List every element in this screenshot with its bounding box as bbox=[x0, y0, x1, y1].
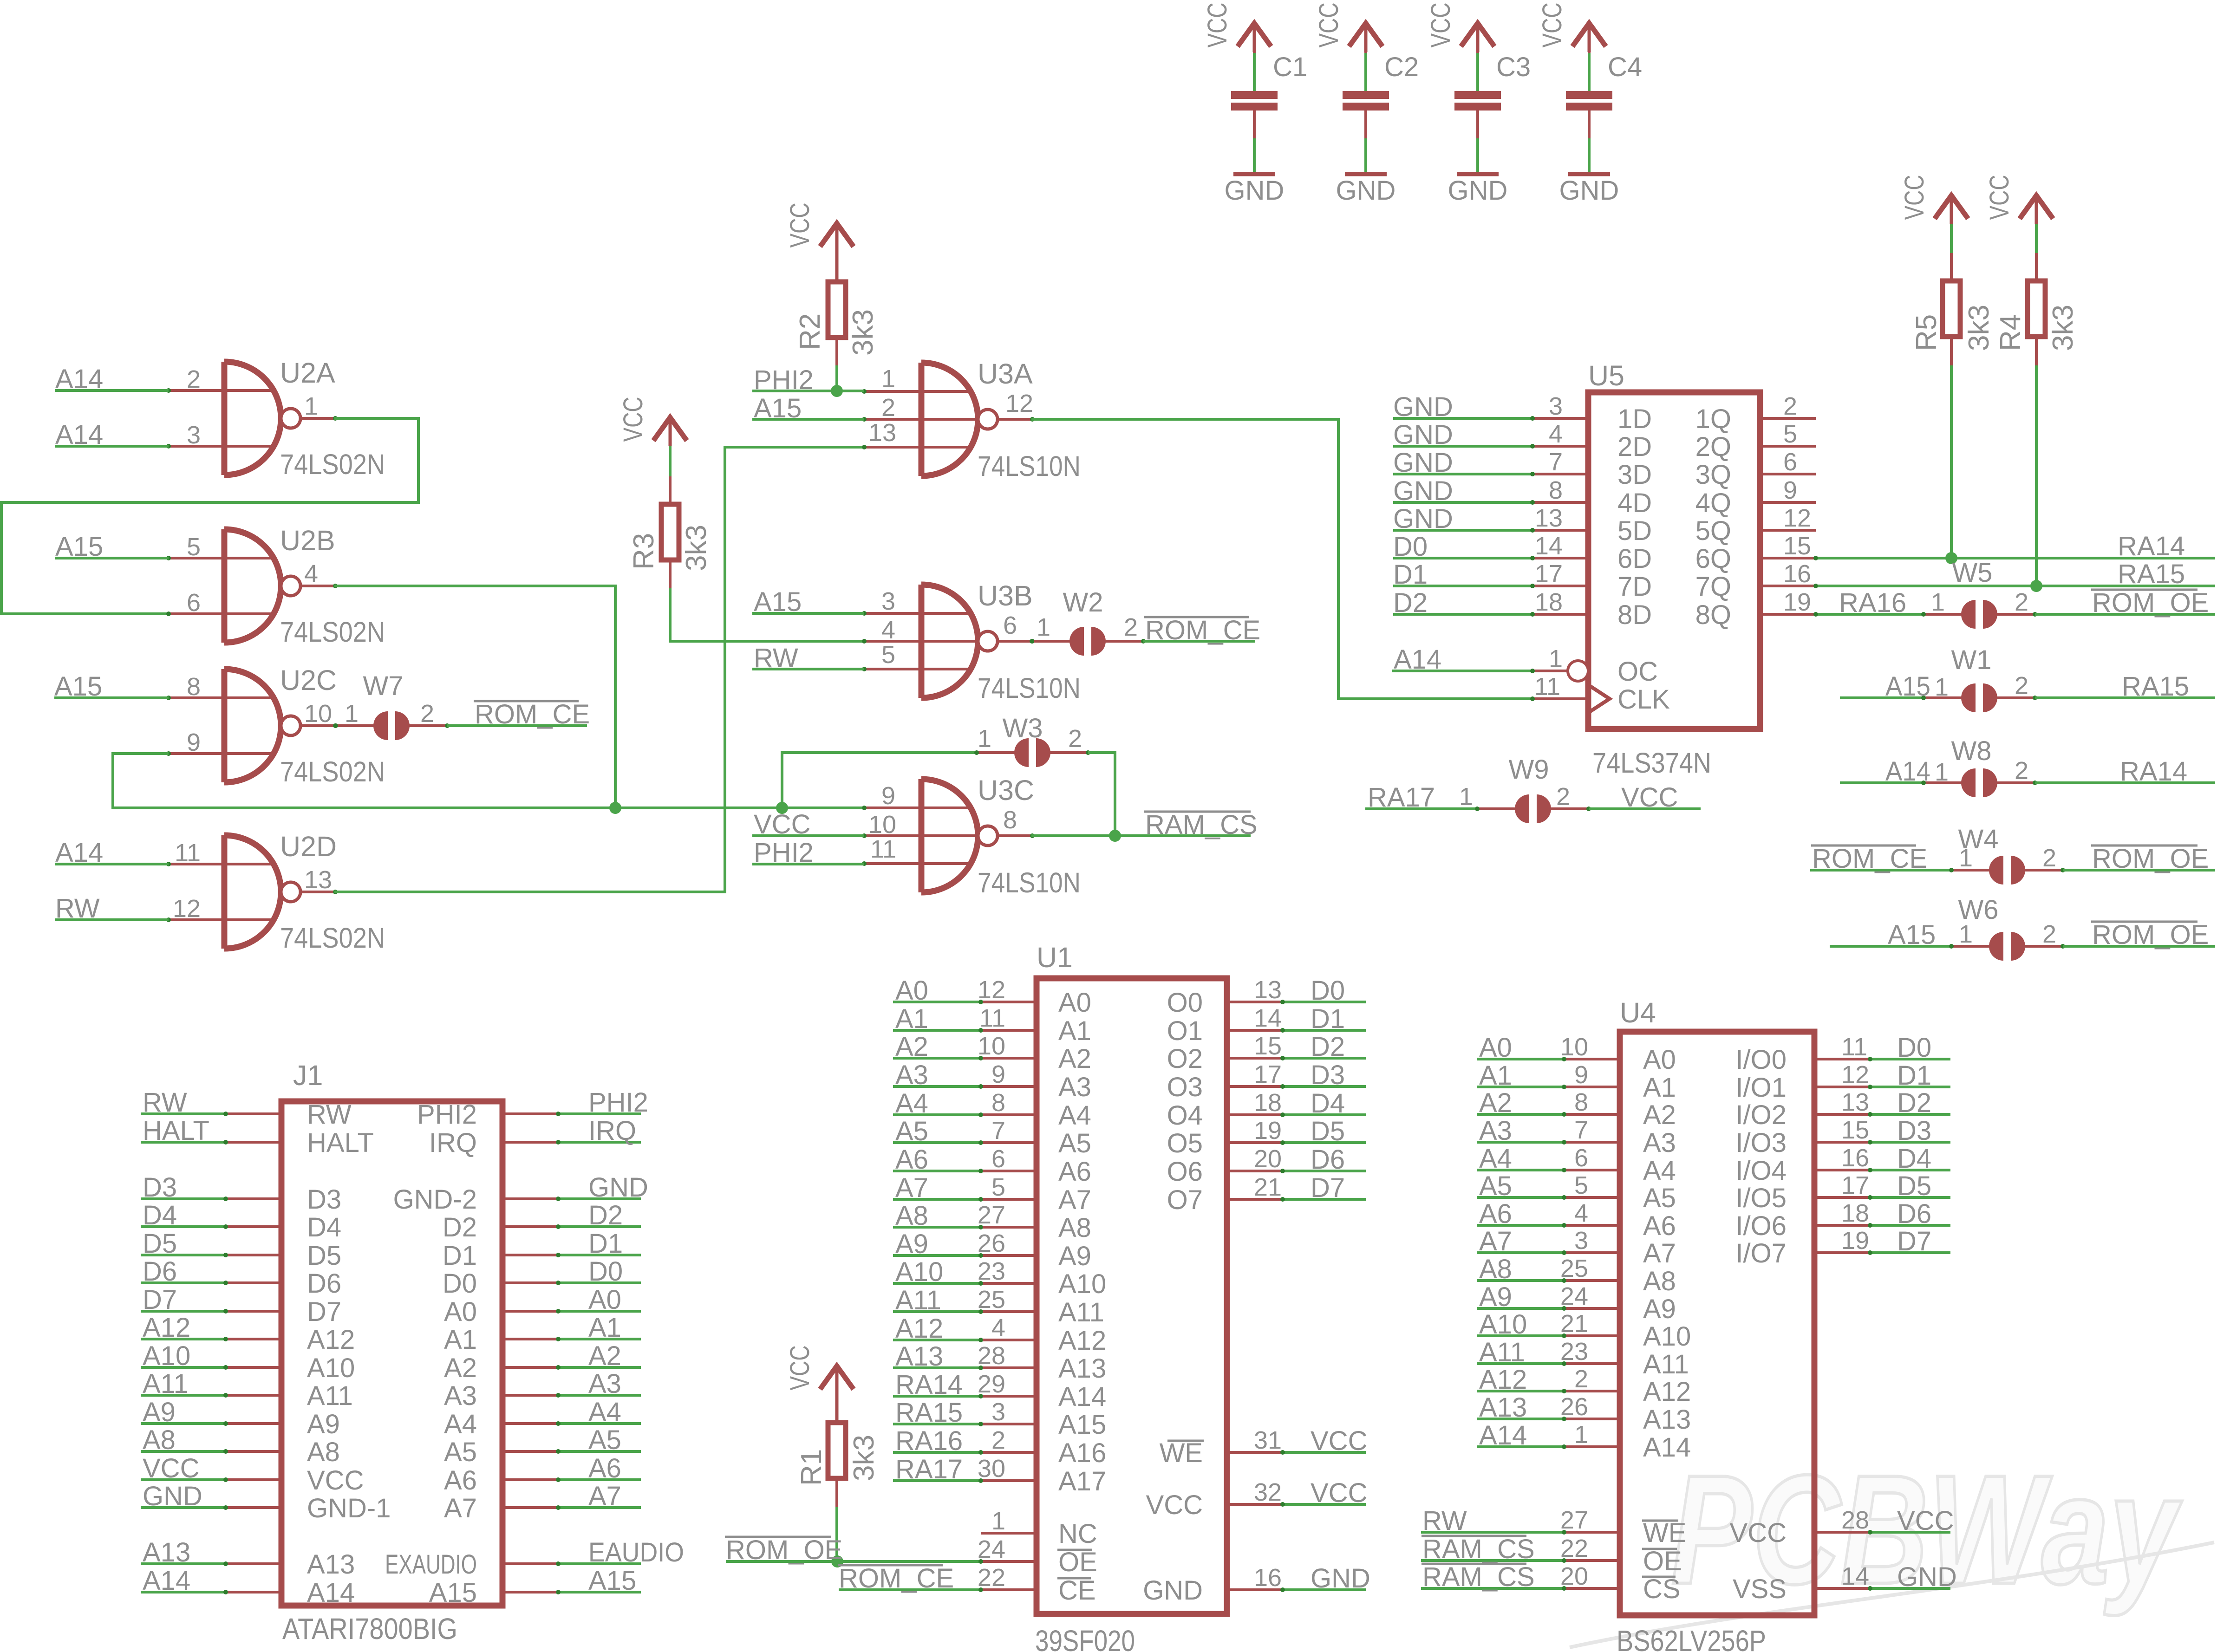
VCC power symbol above R2 bbox=[820, 223, 854, 247]
svg-text:8: 8 bbox=[991, 1089, 1005, 1117]
U1 pin 27 (A8) net A8 bbox=[893, 1226, 981, 1229]
svg-text:2: 2 bbox=[1124, 613, 1138, 641]
U1 pin 28 (A13) net A13 bbox=[893, 1366, 981, 1369]
svg-text:3: 3 bbox=[1574, 1227, 1588, 1255]
svg-text:2: 2 bbox=[420, 700, 434, 728]
U1 pin 8 (A4) net A4 bbox=[893, 1113, 981, 1116]
J1 right pin A4 net A4 bbox=[502, 1422, 558, 1425]
svg-text:D3: D3 bbox=[1897, 1116, 1931, 1146]
svg-text:17: 17 bbox=[1841, 1171, 1869, 1199]
svg-text:3: 3 bbox=[881, 587, 895, 615]
J1 left pin A14 net A14 bbox=[141, 1591, 226, 1593]
U1 pin 17 (O3) net D3 bbox=[1227, 1085, 1283, 1088]
svg-text:A4: A4 bbox=[1643, 1156, 1676, 1186]
svg-text:A6: A6 bbox=[588, 1453, 621, 1483]
svg-text:2: 2 bbox=[881, 394, 895, 422]
svg-text:A11: A11 bbox=[307, 1381, 353, 1411]
svg-text:19: 19 bbox=[1841, 1227, 1869, 1255]
svg-text:VCC: VCC bbox=[1984, 175, 2015, 220]
svg-text:GND: GND bbox=[1393, 392, 1453, 422]
svg-text:24: 24 bbox=[978, 1535, 1005, 1563]
svg-text:GND: GND bbox=[588, 1172, 648, 1203]
svg-text:GND: GND bbox=[1393, 504, 1453, 534]
svg-text:A10: A10 bbox=[143, 1341, 190, 1371]
svg-text:VCC: VCC bbox=[1314, 3, 1344, 48]
svg-text:74LS02N: 74LS02N bbox=[280, 616, 385, 648]
svg-text:1: 1 bbox=[1037, 613, 1050, 641]
svg-text:OE: OE bbox=[1643, 1546, 1682, 1576]
U1 pin 13 (O0) net D0 bbox=[1227, 1001, 1283, 1003]
svg-text:12: 12 bbox=[1783, 504, 1811, 532]
junction dot W3 net bbox=[776, 802, 788, 814]
svg-text:D0: D0 bbox=[443, 1268, 477, 1299]
svg-text:74LS02N: 74LS02N bbox=[280, 756, 385, 787]
svg-text:A13: A13 bbox=[1643, 1405, 1691, 1435]
svg-text:CLK: CLK bbox=[1617, 684, 1670, 715]
svg-text:2: 2 bbox=[1556, 783, 1570, 811]
J1 right pin GND-2 net GND bbox=[502, 1197, 558, 1200]
svg-text:I/O0: I/O0 bbox=[1735, 1045, 1787, 1075]
svg-text:1: 1 bbox=[1959, 844, 1973, 872]
svg-text:28: 28 bbox=[978, 1342, 1005, 1370]
svg-text:5D: 5D bbox=[1617, 516, 1652, 546]
svg-text:VCC: VCC bbox=[307, 1465, 364, 1496]
svg-text:3k3: 3k3 bbox=[847, 309, 879, 356]
svg-text:1: 1 bbox=[1935, 758, 1949, 786]
jumper W1 with pin numbers 1 2 bbox=[1924, 696, 1962, 699]
svg-text:W1: W1 bbox=[1951, 645, 1992, 675]
svg-text:GND: GND bbox=[1559, 176, 1619, 206]
svg-text:3: 3 bbox=[187, 421, 201, 449]
svg-text:D7: D7 bbox=[1897, 1226, 1931, 1256]
svg-text:A5: A5 bbox=[1643, 1183, 1676, 1213]
svg-text:5: 5 bbox=[1574, 1171, 1588, 1199]
U1 pin 11 (A1) net A1 bbox=[893, 1029, 981, 1032]
svg-text:A0: A0 bbox=[1643, 1045, 1676, 1075]
svg-text:D5: D5 bbox=[143, 1229, 177, 1259]
U4 pin 3 (A7) bbox=[1477, 1251, 1564, 1254]
svg-text:1D: 1D bbox=[1617, 404, 1652, 434]
U5 pin 6 (3Q) bbox=[1760, 473, 1816, 475]
svg-text:5: 5 bbox=[991, 1173, 1005, 1201]
svg-text:14: 14 bbox=[1535, 532, 1563, 560]
svg-text:W8: W8 bbox=[1951, 736, 1992, 766]
svg-text:A8: A8 bbox=[1643, 1266, 1676, 1296]
svg-text:D6: D6 bbox=[1311, 1145, 1345, 1175]
svg-text:16: 16 bbox=[1783, 560, 1811, 588]
U5 CLK pin bbox=[1532, 697, 1588, 700]
U4 pin 13 (I/O2) net D2 bbox=[1814, 1113, 1870, 1116]
svg-text:12: 12 bbox=[1005, 390, 1033, 417]
capacitor C3 bbox=[1476, 53, 1479, 91]
svg-text:D6: D6 bbox=[307, 1268, 341, 1299]
svg-text:W5: W5 bbox=[1952, 558, 1993, 588]
U5 pin 12 (5Q) bbox=[1760, 529, 1816, 532]
svg-text:A8: A8 bbox=[143, 1425, 176, 1455]
svg-text:GND: GND bbox=[1448, 176, 1508, 206]
svg-text:VCC: VCC bbox=[1897, 1506, 1954, 1536]
svg-text:A2: A2 bbox=[895, 1032, 928, 1062]
svg-text:VCC: VCC bbox=[1621, 782, 1678, 813]
svg-text:RA15: RA15 bbox=[895, 1398, 963, 1428]
svg-text:6: 6 bbox=[991, 1145, 1005, 1173]
svg-text:A0: A0 bbox=[444, 1297, 477, 1327]
svg-text:D3: D3 bbox=[307, 1184, 341, 1215]
J1 left pin A9 net A9 bbox=[141, 1422, 226, 1425]
svg-text:W3: W3 bbox=[1003, 713, 1043, 743]
NOR gate U2B (74LS02N) bbox=[222, 529, 228, 643]
svg-text:O4: O4 bbox=[1167, 1100, 1203, 1131]
svg-text:19: 19 bbox=[1783, 588, 1811, 616]
svg-text:15: 15 bbox=[1254, 1032, 1282, 1060]
NAND gate U3C (74LS10N) bbox=[919, 779, 925, 892]
svg-text:24: 24 bbox=[1560, 1282, 1588, 1310]
svg-text:A8: A8 bbox=[895, 1201, 928, 1231]
svg-text:A5: A5 bbox=[1058, 1128, 1091, 1158]
svg-text:A2: A2 bbox=[588, 1341, 621, 1371]
svg-text:O3: O3 bbox=[1167, 1072, 1203, 1102]
svg-text:8: 8 bbox=[1574, 1088, 1588, 1116]
svg-text:VCC: VCC bbox=[1311, 1478, 1367, 1508]
svg-text:VCC: VCC bbox=[1730, 1518, 1787, 1548]
svg-text:D2: D2 bbox=[1897, 1088, 1931, 1118]
svg-text:U1: U1 bbox=[1037, 942, 1073, 973]
U1 pin 14 (O1) net D1 bbox=[1227, 1029, 1283, 1032]
svg-text:A15: A15 bbox=[1058, 1410, 1106, 1440]
svg-text:A13: A13 bbox=[307, 1549, 355, 1580]
svg-text:1: 1 bbox=[1549, 645, 1563, 673]
svg-text:A4: A4 bbox=[1058, 1100, 1091, 1131]
svg-text:12: 12 bbox=[173, 895, 201, 923]
svg-text:17: 17 bbox=[1535, 560, 1563, 588]
svg-text:11: 11 bbox=[979, 1004, 1005, 1032]
svg-text:A0: A0 bbox=[588, 1285, 621, 1315]
svg-text:RA16: RA16 bbox=[895, 1426, 963, 1456]
wire U2D output to U3A pin 13 bbox=[334, 447, 864, 892]
svg-text:A6: A6 bbox=[1643, 1211, 1676, 1241]
svg-text:W9: W9 bbox=[1509, 754, 1549, 785]
svg-text:HALT: HALT bbox=[143, 1116, 209, 1146]
svg-text:A8: A8 bbox=[1058, 1213, 1091, 1243]
svg-text:74LS02N: 74LS02N bbox=[280, 922, 385, 954]
IC U1 39SF020 box bbox=[1037, 978, 1227, 1614]
J1 left pin A11 net A11 bbox=[141, 1394, 226, 1397]
svg-text:D1: D1 bbox=[443, 1241, 477, 1271]
svg-text:7: 7 bbox=[991, 1117, 1005, 1145]
svg-text:GND-2: GND-2 bbox=[393, 1184, 477, 1215]
jumper W9 with pin numbers 1 2 bbox=[1477, 807, 1515, 810]
J1 right pin IRQ net IRQ bbox=[502, 1141, 558, 1144]
svg-text:A5: A5 bbox=[444, 1437, 477, 1467]
U4 pin 22 OE net RAM_CS bbox=[1421, 1559, 1564, 1562]
svg-text:1: 1 bbox=[1459, 783, 1473, 811]
svg-text:15: 15 bbox=[1783, 532, 1811, 560]
svg-text:RA16: RA16 bbox=[1839, 588, 1906, 618]
svg-text:74LS10N: 74LS10N bbox=[978, 672, 1081, 704]
svg-text:U5: U5 bbox=[1588, 360, 1624, 391]
J1 left pin VCC net VCC bbox=[141, 1478, 226, 1481]
U4 pin 11 (I/O0) net D0 bbox=[1814, 1058, 1870, 1060]
svg-text:A9: A9 bbox=[1058, 1241, 1091, 1271]
NAND gate U3A (74LS10N) bbox=[919, 363, 925, 476]
J1 left pin A10 net A10 bbox=[141, 1366, 226, 1369]
svg-text:A7: A7 bbox=[444, 1493, 477, 1523]
svg-text:10: 10 bbox=[868, 811, 896, 839]
U1 pin 24 OE bbox=[981, 1560, 1037, 1563]
svg-text:D1: D1 bbox=[1311, 1004, 1345, 1034]
svg-text:6: 6 bbox=[1783, 448, 1797, 476]
svg-text:U3C: U3C bbox=[978, 774, 1034, 806]
svg-text:D0: D0 bbox=[1897, 1033, 1931, 1063]
svg-text:R1: R1 bbox=[796, 1449, 828, 1486]
wire W7 to ROM_CE label bbox=[447, 724, 587, 727]
svg-text:ROM_OE: ROM_OE bbox=[2092, 844, 2209, 874]
jumper W3 bbox=[782, 753, 976, 808]
U5 pin 14 (6D) with net D0 bbox=[1393, 557, 1532, 559]
svg-text:A8: A8 bbox=[307, 1437, 340, 1467]
svg-text:R2: R2 bbox=[794, 313, 826, 350]
U4 pin 24 (A9) bbox=[1477, 1307, 1564, 1310]
svg-text:D2: D2 bbox=[588, 1200, 623, 1230]
svg-text:A3: A3 bbox=[895, 1060, 928, 1090]
U4 pin 4 (A6) bbox=[1477, 1224, 1564, 1227]
svg-text:4: 4 bbox=[1574, 1199, 1588, 1227]
svg-text:21: 21 bbox=[1560, 1310, 1588, 1338]
svg-text:A3: A3 bbox=[444, 1381, 477, 1411]
U5 pin 18 (8D) with net D2 bbox=[1393, 613, 1532, 616]
svg-text:GND: GND bbox=[1336, 176, 1396, 206]
svg-text:10: 10 bbox=[978, 1032, 1005, 1060]
U1 pin 5 (A7) net A7 bbox=[893, 1198, 981, 1201]
junction dot R4/RA15 bbox=[2030, 580, 2042, 592]
svg-text:13: 13 bbox=[1841, 1088, 1869, 1116]
svg-text:A11: A11 bbox=[1058, 1297, 1104, 1327]
svg-text:NC: NC bbox=[1058, 1519, 1097, 1549]
svg-text:9: 9 bbox=[1574, 1061, 1588, 1089]
svg-text:A3: A3 bbox=[1058, 1072, 1091, 1102]
svg-text:21: 21 bbox=[1254, 1173, 1282, 1201]
svg-text:I/O7: I/O7 bbox=[1735, 1238, 1787, 1268]
svg-text:1Q: 1Q bbox=[1695, 404, 1731, 434]
svg-text:GND: GND bbox=[1311, 1563, 1370, 1593]
U5 pin 19 (8Q) bbox=[1760, 613, 1816, 616]
VCC power symbol above R4 bbox=[2020, 195, 2053, 219]
svg-text:D4: D4 bbox=[1311, 1088, 1345, 1119]
svg-text:GND: GND bbox=[1393, 448, 1453, 478]
svg-text:A3: A3 bbox=[1479, 1116, 1512, 1146]
svg-text:D7: D7 bbox=[307, 1297, 341, 1327]
svg-text:RAM_CS: RAM_CS bbox=[1145, 810, 1258, 840]
U4 pin 17 (I/O5) net D5 bbox=[1814, 1196, 1870, 1199]
svg-text:O2: O2 bbox=[1167, 1044, 1203, 1074]
svg-text:A4: A4 bbox=[588, 1397, 621, 1427]
capacitor C4 bbox=[1588, 53, 1591, 91]
svg-text:A5: A5 bbox=[895, 1116, 928, 1146]
svg-text:U2D: U2D bbox=[280, 831, 337, 862]
U5 pin 3 (1D) with net GND bbox=[1393, 417, 1532, 420]
J1 right pin D2 net D2 bbox=[502, 1225, 558, 1228]
ground symbol GND below C3 bbox=[1457, 172, 1499, 176]
svg-text:O5: O5 bbox=[1167, 1128, 1203, 1158]
J1 right pin A15 net A15 bbox=[502, 1591, 558, 1593]
svg-text:PHI2: PHI2 bbox=[417, 1099, 477, 1130]
svg-text:11: 11 bbox=[1841, 1033, 1867, 1061]
svg-text:6: 6 bbox=[1003, 611, 1017, 639]
svg-text:D1: D1 bbox=[1393, 559, 1428, 590]
svg-text:D5: D5 bbox=[307, 1241, 341, 1271]
svg-text:A14: A14 bbox=[1643, 1432, 1691, 1463]
svg-text:2: 2 bbox=[1068, 725, 1082, 753]
svg-text:15: 15 bbox=[1841, 1116, 1869, 1144]
VCC power symbol above C3 bbox=[1461, 23, 1494, 46]
svg-text:A9: A9 bbox=[1643, 1294, 1676, 1324]
svg-text:16: 16 bbox=[1254, 1564, 1282, 1592]
svg-text:OE: OE bbox=[1058, 1547, 1097, 1577]
ground symbol GND below C2 bbox=[1345, 172, 1387, 176]
svg-text:4D: 4D bbox=[1617, 488, 1652, 518]
svg-text:13: 13 bbox=[1254, 976, 1282, 1004]
svg-text:R3: R3 bbox=[628, 533, 660, 570]
svg-text:8: 8 bbox=[187, 673, 201, 701]
U1 pin 31 WE net VCC bbox=[1227, 1451, 1283, 1454]
svg-text:A13: A13 bbox=[143, 1537, 190, 1567]
svg-text:3D: 3D bbox=[1617, 460, 1652, 490]
svg-text:23: 23 bbox=[1560, 1338, 1588, 1366]
svg-text:D3: D3 bbox=[1311, 1060, 1345, 1090]
U4 pin 20 CS net RAM_CS bbox=[1421, 1587, 1564, 1590]
U1 pin 4 (A12) net A12 bbox=[893, 1339, 981, 1341]
svg-text:A14: A14 bbox=[1394, 644, 1441, 675]
NOR gate U2C (74LS02N) bbox=[222, 669, 228, 782]
svg-text:W2: W2 bbox=[1063, 587, 1103, 618]
svg-text:74LS10N: 74LS10N bbox=[978, 450, 1081, 482]
svg-text:CS: CS bbox=[1643, 1574, 1681, 1604]
J1 right pin D0 net D0 bbox=[502, 1281, 558, 1284]
svg-text:A6: A6 bbox=[444, 1465, 477, 1496]
svg-text:4: 4 bbox=[991, 1314, 1005, 1342]
svg-text:1: 1 bbox=[1959, 920, 1973, 948]
svg-text:A2: A2 bbox=[1479, 1088, 1512, 1118]
svg-text:GND: GND bbox=[143, 1481, 202, 1511]
svg-text:U2A: U2A bbox=[280, 357, 335, 389]
svg-text:D7: D7 bbox=[143, 1285, 177, 1315]
svg-text:A16: A16 bbox=[1058, 1438, 1106, 1468]
U1 pin 2 (A16) net RA16 bbox=[893, 1451, 981, 1454]
J1 left pin HALT net HALT bbox=[141, 1141, 226, 1144]
J1 right pin D1 net D1 bbox=[502, 1254, 558, 1256]
svg-text:A2: A2 bbox=[1058, 1044, 1091, 1074]
svg-text:I/O3: I/O3 bbox=[1735, 1128, 1787, 1158]
U5 pin 7 (3D) with net GND bbox=[1393, 473, 1532, 475]
U1 pin 26 (A9) net A9 bbox=[893, 1254, 981, 1257]
svg-text:A15: A15 bbox=[588, 1566, 636, 1596]
svg-text:C1: C1 bbox=[1273, 52, 1307, 82]
J1 left pin D4 net D4 bbox=[141, 1225, 226, 1228]
svg-text:A14: A14 bbox=[1058, 1382, 1106, 1412]
wire A15 to W6 pin 1 bbox=[1830, 945, 1951, 948]
svg-text:A2: A2 bbox=[1643, 1100, 1676, 1130]
svg-text:GND-1: GND-1 bbox=[307, 1493, 391, 1523]
IC U4 BS62LV256P box bbox=[1620, 1032, 1814, 1615]
svg-text:25: 25 bbox=[1560, 1255, 1588, 1282]
svg-text:74LS374N: 74LS374N bbox=[1592, 747, 1711, 779]
svg-text:A9: A9 bbox=[307, 1409, 340, 1439]
svg-text:D0: D0 bbox=[588, 1256, 623, 1287]
svg-text:1: 1 bbox=[304, 392, 318, 420]
svg-text:VCC: VCC bbox=[1899, 175, 1930, 220]
junction dot R1/ROM_OE bbox=[831, 1555, 843, 1567]
U4 pin 25 (A8) bbox=[1477, 1279, 1564, 1282]
U5 pin 8 (4D) with net GND bbox=[1393, 501, 1532, 504]
svg-text:4Q: 4Q bbox=[1695, 488, 1731, 518]
svg-text:22: 22 bbox=[978, 1564, 1005, 1592]
J1 right pin A0 net A0 bbox=[502, 1310, 558, 1313]
svg-text:A4: A4 bbox=[1479, 1144, 1512, 1174]
svg-text:VCC: VCC bbox=[1537, 3, 1567, 48]
svg-text:CE: CE bbox=[1058, 1575, 1096, 1606]
U5 OC pin with A14 bbox=[1568, 661, 1588, 681]
svg-text:O6: O6 bbox=[1167, 1157, 1203, 1187]
U5 pin 4 (2D) with net GND bbox=[1393, 445, 1532, 448]
svg-text:A0: A0 bbox=[895, 976, 928, 1006]
svg-text:18: 18 bbox=[1254, 1089, 1282, 1117]
svg-text:A17: A17 bbox=[1058, 1466, 1106, 1496]
svg-text:GND: GND bbox=[1393, 476, 1453, 506]
U4 pin 1 (A14) bbox=[1477, 1445, 1564, 1448]
svg-text:RA17: RA17 bbox=[1368, 782, 1435, 813]
svg-text:VCC: VCC bbox=[1311, 1426, 1367, 1456]
connector J1 ATARI7800BIG box bbox=[281, 1101, 502, 1606]
U4 pin 28 VCC net VCC bbox=[1814, 1531, 1870, 1534]
svg-text:2: 2 bbox=[2015, 672, 2028, 700]
svg-text:VCC: VCC bbox=[1426, 3, 1456, 48]
svg-text:A1: A1 bbox=[1643, 1073, 1676, 1103]
svg-text:74LS10N: 74LS10N bbox=[978, 867, 1081, 898]
svg-text:31: 31 bbox=[1254, 1426, 1282, 1454]
U1 pin 12 (A0) net A0 bbox=[893, 1001, 981, 1003]
svg-text:VSS: VSS bbox=[1733, 1574, 1787, 1604]
svg-text:RA14: RA14 bbox=[895, 1370, 963, 1400]
J1 right pin PHI2 net PHI2 bbox=[502, 1112, 558, 1115]
J1 right pin A7 net A7 bbox=[502, 1506, 558, 1509]
svg-text:RA15: RA15 bbox=[2118, 559, 2185, 589]
svg-text:7: 7 bbox=[1574, 1116, 1588, 1144]
svg-text:8: 8 bbox=[1549, 476, 1563, 504]
svg-text:D4: D4 bbox=[307, 1212, 341, 1242]
svg-text:A5: A5 bbox=[1479, 1171, 1512, 1201]
VCC power symbol above C1 bbox=[1238, 23, 1271, 46]
wire W8 pin 2 to RA14 bbox=[2035, 781, 2215, 784]
svg-text:A7: A7 bbox=[1058, 1185, 1091, 1215]
U5 pin 5 (2Q) bbox=[1760, 445, 1816, 448]
svg-text:RA15: RA15 bbox=[2122, 671, 2189, 702]
svg-text:GND: GND bbox=[1143, 1575, 1203, 1606]
U4 pin 21 (A10) bbox=[1477, 1334, 1564, 1337]
svg-text:VCC: VCC bbox=[143, 1453, 199, 1483]
resistor R4 3k3 pull-up bbox=[2035, 195, 2038, 224]
VCC power symbol above R1 bbox=[820, 1366, 854, 1389]
svg-text:PHI2: PHI2 bbox=[588, 1087, 648, 1118]
svg-text:RW: RW bbox=[143, 1087, 187, 1118]
U4 pin 23 (A11) bbox=[1477, 1362, 1564, 1365]
VCC power symbol above C2 bbox=[1349, 23, 1382, 46]
svg-text:VCC: VCC bbox=[1202, 3, 1232, 48]
svg-text:8Q: 8Q bbox=[1695, 600, 1731, 630]
svg-text:9: 9 bbox=[881, 782, 895, 810]
svg-text:9: 9 bbox=[187, 728, 201, 756]
svg-text:D1: D1 bbox=[588, 1229, 623, 1259]
svg-text:C4: C4 bbox=[1608, 52, 1642, 82]
